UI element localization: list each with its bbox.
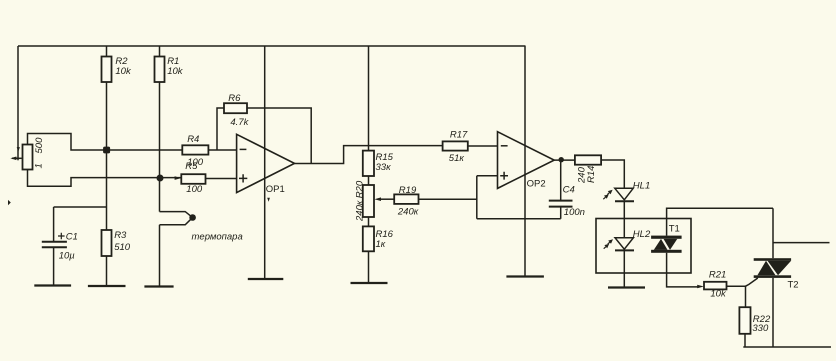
wire R19 wiper arrow into R20 xyxy=(374,197,394,201)
svg-text:термопара: термопара xyxy=(192,232,243,243)
label R2 xyxy=(115,56,132,77)
wire R2 top xyxy=(106,46,108,57)
svg-text:10k: 10k xyxy=(710,288,727,299)
label R15 xyxy=(376,152,394,173)
capacitor C4 xyxy=(549,201,573,207)
wire pot top to node A xyxy=(28,134,183,151)
wire R4 to OP1 inverting input xyxy=(208,149,236,151)
wire HL2 to ground xyxy=(623,250,625,287)
resistor R1 xyxy=(155,57,165,83)
svg-text:HL2: HL2 xyxy=(633,229,651,240)
resistor R6 xyxy=(224,103,247,113)
resistor R15 xyxy=(363,151,374,176)
label C4 xyxy=(563,185,585,218)
ground thermocouple xyxy=(144,285,173,287)
wire arrow into R5 xyxy=(175,176,182,180)
node mark below OP1 xyxy=(267,198,270,202)
svg-text:R20: R20 xyxy=(354,180,365,198)
wire R6 left leg xyxy=(217,108,224,150)
resistor R22 xyxy=(739,307,750,334)
potentiometer 500 xyxy=(23,145,33,170)
wire R22 top lead xyxy=(745,286,747,307)
svg-text:51к: 51к xyxy=(449,153,465,164)
node A junction dot xyxy=(103,147,110,154)
wire C1 tap xyxy=(54,207,107,241)
wire T2 line stub xyxy=(773,242,830,244)
svg-text:1к: 1к xyxy=(376,239,386,250)
wire C4 top lead xyxy=(560,160,562,200)
wire R15 to R20 xyxy=(368,176,370,185)
resistor R5 xyxy=(181,174,205,184)
wire T1 bottom lead to R21 xyxy=(667,253,699,287)
label R20 xyxy=(354,180,365,222)
svg-text:R5: R5 xyxy=(185,161,198,172)
label R6 xyxy=(228,93,249,128)
label C1 xyxy=(59,231,78,261)
ground HL2 xyxy=(608,286,645,288)
label R16 xyxy=(376,229,394,250)
label R3 xyxy=(114,230,131,253)
svg-text:100: 100 xyxy=(186,184,203,195)
ground R3 xyxy=(88,285,126,287)
wire T1 top lead to T2 xyxy=(667,208,773,235)
optocoupler box xyxy=(596,219,691,274)
svg-text:10µ: 10µ xyxy=(59,250,76,261)
ground OP2 xyxy=(506,275,544,277)
wire OP2 output xyxy=(554,159,575,161)
resistor R21 xyxy=(704,282,727,290)
svg-text:T2: T2 xyxy=(788,280,799,291)
svg-text:100n: 100n xyxy=(564,207,585,218)
LED HL2 xyxy=(604,238,634,251)
wire R17 to OP2 inverting input xyxy=(468,145,498,147)
svg-text:HL1: HL1 xyxy=(633,181,650,192)
svg-text:240: 240 xyxy=(577,166,588,184)
op-amp OP2 xyxy=(498,132,555,189)
resistor R14 xyxy=(575,155,601,164)
ground C1 xyxy=(34,284,71,286)
wire divider drop from rail xyxy=(368,46,370,151)
wire R1 top xyxy=(159,46,161,57)
op-amp OP1 xyxy=(237,134,295,192)
wire OP2 power vertical xyxy=(524,46,526,277)
svg-text:R6: R6 xyxy=(228,93,241,104)
wire OP1 power vertical xyxy=(264,46,266,279)
resistor R3 xyxy=(102,230,112,256)
svg-text:240к: 240к xyxy=(354,200,365,222)
svg-text:500: 500 xyxy=(34,137,45,154)
svg-text:33к: 33к xyxy=(376,162,392,173)
wire top supply rail xyxy=(18,45,526,47)
label R21 xyxy=(709,269,727,299)
wire R19 to OP2 non-inverting input xyxy=(419,176,561,219)
svg-text:R4: R4 xyxy=(187,134,199,145)
thermocouple xyxy=(160,212,196,225)
label R22 xyxy=(752,314,771,334)
opto-triac T1 xyxy=(651,236,682,253)
svg-text:R19: R19 xyxy=(399,185,417,196)
resistor R19 xyxy=(394,194,418,204)
wire R16 to ground xyxy=(368,251,370,283)
potentiometer R20 xyxy=(363,185,374,217)
svg-text:C1: C1 xyxy=(66,231,78,242)
label R5 xyxy=(185,161,203,195)
svg-text:OP1: OP1 xyxy=(266,184,285,195)
label R14 xyxy=(577,166,597,184)
ground R16 xyxy=(351,282,388,284)
wire pot wiper arrow xyxy=(10,147,21,160)
wire R6 right to OP1 output xyxy=(247,108,311,164)
svg-text:4.7k: 4.7k xyxy=(230,117,249,128)
wire HL1 to HL2 xyxy=(623,201,625,237)
svg-text:OP2: OP2 xyxy=(527,178,546,189)
wire R20 to R16 xyxy=(368,217,370,226)
svg-text:1: 1 xyxy=(34,163,45,168)
LED HL1 xyxy=(603,188,634,201)
wire R14 to HL1 xyxy=(601,160,624,188)
label R19 xyxy=(397,185,419,217)
wire OP1 output to R17 xyxy=(295,146,443,164)
svg-text:R3: R3 xyxy=(114,230,127,241)
wire left drop to pot wiper xyxy=(17,46,19,160)
resistor R4 xyxy=(182,145,208,154)
resistor R2 xyxy=(102,57,112,83)
svg-text:10k: 10k xyxy=(115,66,132,77)
node C4 junction dot xyxy=(559,157,564,162)
wire C4 bottom lead xyxy=(560,207,562,219)
capacitor C1 xyxy=(42,233,67,248)
svg-text:10k: 10k xyxy=(167,66,184,77)
label R17 xyxy=(449,130,468,164)
label R4 xyxy=(187,134,204,168)
wire thermocouple to ground xyxy=(159,225,161,287)
wire pot bottom to node B xyxy=(28,170,182,187)
wire R3 to ground xyxy=(106,256,108,286)
resistor R16 xyxy=(363,226,374,251)
svg-text:510: 510 xyxy=(114,242,131,253)
resistor R17 xyxy=(443,141,468,150)
wire bottom rail xyxy=(743,346,831,348)
triac T2 xyxy=(754,258,791,278)
wire T2 top lead xyxy=(772,208,774,258)
wire arrow into R21 xyxy=(697,285,704,289)
svg-text:330: 330 xyxy=(752,323,769,334)
ground OP1 xyxy=(248,278,283,280)
node mark left edge xyxy=(8,200,11,205)
wire T2 bottom lead xyxy=(772,278,774,347)
node B junction dot xyxy=(157,175,164,182)
label R1 xyxy=(167,56,184,77)
wire R21 to T2 gate xyxy=(727,278,758,286)
svg-text:T1: T1 xyxy=(669,223,680,234)
wire R2 bottom through node A to R3 xyxy=(106,82,108,230)
svg-text:R21: R21 xyxy=(709,269,726,280)
svg-text:C4: C4 xyxy=(563,185,575,196)
svg-text:240к: 240к xyxy=(397,207,419,218)
wire R1 bottom through node B to thermocouple xyxy=(159,82,161,212)
svg-text:R17: R17 xyxy=(450,130,468,141)
wire R22 to bottom rail xyxy=(744,334,746,347)
wire C1 to ground xyxy=(53,248,55,286)
wire R5 to OP1 non-inverting input xyxy=(206,178,237,180)
